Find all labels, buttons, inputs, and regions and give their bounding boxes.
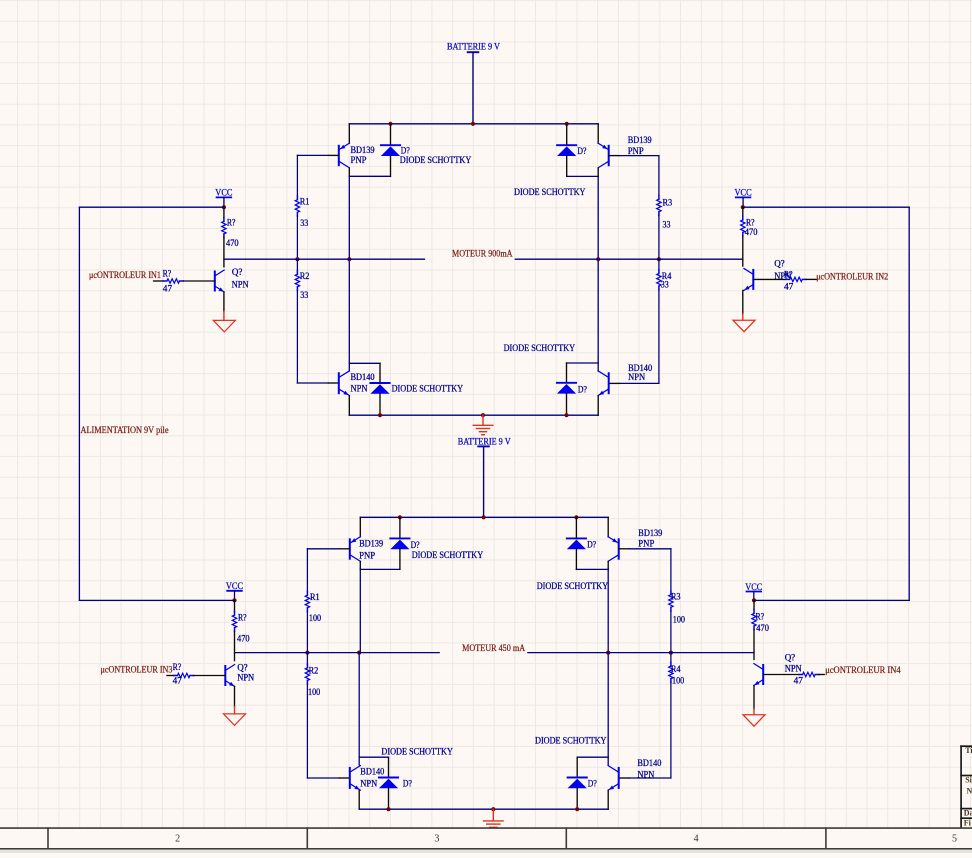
svg-text:3: 3: [434, 834, 439, 845]
pin diode D8 anode: [576, 788, 578, 809]
svg-text:47: 47: [794, 675, 804, 685]
svg-text:BD140: BD140: [637, 758, 661, 768]
node VCC-TL: [222, 205, 226, 209]
svg-text:PNP: PNP: [628, 146, 644, 156]
node battery/top-rail junction: [471, 122, 475, 126]
svg-text:33: 33: [661, 279, 669, 289]
svg-text:NPN: NPN: [237, 672, 254, 682]
power port BATTERIE 9 V (top): [447, 42, 500, 53]
pin diode D6 anode: [575, 549, 577, 569]
power port VCC (top-left): [215, 187, 232, 197]
pin R? top TR: [742, 207, 744, 216]
diode D1 schottky (top-left): [381, 145, 400, 156]
wire VCC stem TR: [742, 197, 744, 207]
svg-text:D?: D?: [587, 540, 596, 550]
svg-text:100: 100: [308, 687, 321, 697]
resistor R? 470 (top-left): [222, 218, 226, 238]
wire VCC stem TL: [223, 197, 225, 207]
svg-text:R?: R?: [163, 269, 172, 279]
wire motor node to R2: [296, 259, 298, 270]
svg-text:BD139: BD139: [628, 135, 652, 145]
transistor Q? NPN driver top-right: [744, 269, 753, 291]
resistor R? 47 (top-right): [786, 277, 806, 281]
wire motor row right a: [659, 258, 743, 260]
svg-text:R?: R?: [784, 270, 793, 280]
svg-text:Q?: Q?: [232, 267, 243, 277]
pin base Q-BD140-BR: [619, 777, 630, 779]
wire VCC-TR to right rail: [743, 206, 909, 208]
pin collector Q-BD139-TR: [597, 168, 599, 176]
pin emitter Q-BD140-BL: [358, 790, 360, 809]
svg-text:DIODE SCHOTTKY: DIODE SCHOTTKY: [400, 155, 472, 165]
pin diode D1 cathode: [390, 124, 392, 145]
pin emitter Q-BL: [234, 687, 236, 707]
wire right rail: [908, 207, 910, 600]
sheet border ruler band: [0, 828, 972, 849]
svg-text:Fi: Fi: [964, 818, 972, 827]
diode D5 schottky (bridge2 top-left): [390, 538, 409, 549]
svg-text:NPN: NPN: [232, 280, 249, 290]
svg-text:BD140: BD140: [360, 767, 384, 777]
svg-text:Q?: Q?: [237, 662, 248, 672]
node battery/bridge2-rail junction: [482, 515, 486, 519]
svg-text:47: 47: [163, 284, 173, 294]
transistor BD140 NPN bridge2-right: [608, 766, 619, 791]
pin collector Q-BD139-BL: [359, 562, 361, 570]
resistor R? 470 (bottom-left): [232, 611, 236, 631]
wire motor node to R4: [658, 259, 660, 270]
node R1b/R2b motor junction: [305, 651, 309, 655]
svg-text:BD139: BD139: [359, 538, 383, 548]
wire right leg to BD140-TR collector: [597, 363, 599, 371]
svg-text:D?: D?: [578, 384, 587, 394]
svg-text:NPN: NPN: [637, 770, 654, 780]
wire R4b vertical bottom: [670, 682, 672, 778]
resistor R? 470 (bottom-right): [752, 610, 756, 630]
pin diode D5 anode: [399, 549, 401, 569]
wire R3b to motor node: [670, 611, 672, 653]
wire left leg bridge2 lower: [358, 653, 360, 758]
pin emitter Q-BD139-BR: [607, 517, 609, 537]
node rail2 / D8: [575, 807, 579, 811]
resistor R? 47 (bottom-right): [799, 672, 819, 676]
wire R4b to base BD140-BR: [629, 777, 671, 779]
pin emitter Q-BD139-TL: [348, 124, 350, 144]
wire R2 to base BD140-TL: [297, 382, 328, 384]
wire R4 to base BD140-TR: [619, 382, 659, 384]
pin base Q-BD139-TR: [609, 155, 620, 157]
wire R1 vertical top: [296, 155, 298, 196]
pin base lead Q-BR a: [763, 674, 799, 676]
svg-text:VCC: VCC: [215, 187, 232, 197]
node bridge2 rail / diode D6: [574, 515, 578, 519]
power port BATTERIE 9 V (middle): [458, 437, 511, 447]
svg-text:470: 470: [237, 634, 250, 644]
svg-text:R?: R?: [756, 612, 765, 622]
pin R? top TL: [223, 207, 225, 218]
ground triangle (bottom-right): [743, 715, 765, 727]
svg-text:33: 33: [300, 218, 308, 228]
power port VCC (bottom-right): [745, 582, 762, 592]
svg-text:μcONTROLEUR IN4: μcONTROLEUR IN4: [825, 665, 901, 675]
svg-text:BATTERIE 9 V: BATTERIE 9 V: [458, 437, 511, 447]
svg-text:R4: R4: [671, 664, 681, 674]
pin base lead Q-BL b: [194, 675, 226, 677]
resistor R3 (33): [657, 196, 661, 216]
resistor R1 (100): [305, 592, 309, 612]
node R1/R2 motor junction: [295, 257, 299, 261]
resistor R2 (33): [295, 271, 299, 291]
svg-text:2: 2: [175, 834, 180, 845]
svg-text:MOTEUR 450 mA: MOTEUR 450 mA: [462, 643, 525, 653]
ground triangle (top-left): [213, 320, 235, 332]
svg-text:DIODE SCHOTTKY: DIODE SCHOTTKY: [514, 187, 586, 197]
node rail2 / ground: [491, 807, 495, 811]
svg-text:VCC: VCC: [226, 581, 243, 591]
wire collector row to diode D7: [359, 756, 388, 758]
diode D6 schottky (bridge2 top-right): [567, 538, 586, 549]
svg-text:R1: R1: [300, 196, 310, 206]
diode D4 schottky (bottom-right bridge1): [557, 383, 576, 394]
pin diode D4 anode: [566, 394, 568, 416]
node motor right leg b2: [606, 651, 610, 655]
wire R2 vertical bottom: [296, 290, 298, 383]
pin base Q-BD139-TL: [328, 154, 339, 156]
svg-text:470: 470: [745, 227, 758, 237]
svg-text:PNP: PNP: [638, 539, 654, 549]
wire battery stem (middle): [483, 446, 485, 517]
pin diode D2 cathode: [566, 124, 568, 145]
wire motor node to R4b: [670, 653, 672, 663]
svg-text:μcONTROLEUR IN3: μcONTROLEUR IN3: [101, 664, 173, 674]
transistor Q? NPN driver top-left: [215, 270, 224, 292]
ground earth symbol (bridge1): [473, 425, 493, 434]
svg-text:100: 100: [673, 614, 686, 624]
diode D2 schottky (top-right): [557, 145, 576, 156]
pin diode D4 cathode: [566, 363, 568, 383]
svg-text:NPN: NPN: [785, 663, 802, 673]
node top-rail / diode D1: [388, 122, 392, 126]
pin base Q-BD140-TR: [609, 382, 620, 384]
svg-text:470: 470: [756, 623, 769, 633]
pin emitter Q-BD140-TL: [348, 396, 350, 416]
node top-rail / diode D2: [565, 122, 569, 126]
svg-text:VCC: VCC: [735, 188, 752, 198]
svg-text:BD139: BD139: [638, 528, 662, 538]
ground stem Q-TL: [223, 312, 225, 321]
pin base Q-BD140-TL: [328, 382, 339, 384]
node rail2 / D7: [386, 807, 390, 811]
svg-text:PNP: PNP: [351, 155, 367, 165]
transistor Q? NPN driver bottom-right: [754, 664, 763, 686]
svg-text:Q?: Q?: [785, 653, 796, 663]
pin base Q-BD140-BL: [339, 777, 350, 779]
node R3b/R4b motor junction: [669, 651, 673, 655]
wire R3 vertical top: [658, 156, 660, 196]
resistor R4 (100): [669, 662, 673, 682]
node VCC-TR: [741, 205, 745, 209]
transistor BD139 PNP top-right: [598, 143, 609, 168]
pin R? bottom BL: [234, 631, 236, 660]
resistor R? 47 (top-left): [163, 279, 183, 283]
svg-text:Da: Da: [964, 809, 972, 818]
pin collector Q-BD139-BR: [607, 562, 609, 570]
pin diode D6 cathode: [575, 517, 577, 538]
node motor right leg: [596, 257, 600, 261]
svg-text:μcONTROLEUR IN1: μcONTROLEUR IN1: [89, 270, 161, 280]
wire motor row right stub: [515, 258, 598, 260]
wire motor row b2 left stub: [359, 652, 439, 654]
wire left leg bridge1: [348, 176, 350, 363]
wire base BD139-BL to R1b: [307, 548, 339, 550]
wire motor row b2 right stub: [528, 652, 608, 654]
pin collector Q-BD139-TL: [348, 168, 350, 176]
svg-text:DIODE SCHOTTKY: DIODE SCHOTTKY: [537, 581, 609, 591]
wire base BD139-BR to R3b: [629, 548, 671, 550]
wire collector row to diode D4: [567, 362, 599, 364]
wire R3 to motor node: [658, 215, 660, 259]
pin diode D3 anode: [379, 394, 381, 415]
svg-text:DIODE SCHOTTKY: DIODE SCHOTTKY: [504, 343, 576, 353]
wire motor row left stub: [349, 258, 424, 260]
svg-text:BD140: BD140: [351, 372, 375, 382]
node bottom rail / D4: [564, 413, 568, 417]
wire leg to BD140-BR collector: [607, 757, 609, 765]
pin base lead Q-TL b: [183, 280, 215, 282]
svg-text:BD139: BD139: [351, 145, 375, 155]
node VCC-BR: [752, 598, 756, 602]
svg-text:PNP: PNP: [359, 550, 375, 560]
wire R2b to base BD140-BL: [307, 777, 339, 779]
svg-text:NPN: NPN: [628, 372, 645, 382]
resistor R3 (100): [669, 591, 673, 611]
node bottom rail / ground: [481, 413, 485, 417]
svg-text:DIODE SCHOTTKY: DIODE SCHOTTKY: [412, 550, 484, 560]
svg-text:μcONTROLEUR IN2: μcONTROLEUR IN2: [816, 271, 888, 281]
pin R? bottom TL: [223, 238, 225, 267]
pin base lead Q-TR b: [806, 278, 816, 280]
ground stem (bridge2): [492, 809, 494, 820]
wire leg to BD140-BL collector: [358, 757, 360, 765]
svg-text:DIODE SCHOTTKY: DIODE SCHOTTKY: [381, 747, 453, 757]
node bottom rail / D3: [378, 413, 382, 417]
pin emitter Q-BD139-TR: [597, 124, 599, 144]
wire motor row b2 left a: [235, 652, 308, 654]
wire collector to diode D1 anode: [349, 175, 390, 177]
pin base lead Q-BL a: [167, 675, 174, 677]
pin diode D7 cathode: [388, 757, 390, 777]
svg-text:DIODE SCHOTTKY: DIODE SCHOTTKY: [535, 736, 607, 746]
svg-text:R1: R1: [310, 592, 320, 602]
svg-text:D?: D?: [403, 778, 412, 788]
transistor BD140 NPN bridge2-left: [350, 766, 361, 791]
node motor left leg: [347, 257, 351, 261]
pin emitter Q-BD140-TR: [597, 396, 599, 416]
svg-text:R?: R?: [238, 613, 247, 623]
wire bottom rail bridge2: [359, 808, 608, 810]
diode D3 schottky (bottom-left bridge1): [370, 383, 389, 394]
pin base lead Q-TR a: [753, 278, 786, 280]
svg-text:R?: R?: [746, 218, 755, 228]
wire motor row left a: [224, 258, 297, 260]
wire right leg bridge2: [607, 569, 609, 652]
pin emitter Q-TL: [223, 292, 225, 312]
node VCC-BL: [232, 598, 236, 602]
title block border: [961, 746, 972, 828]
wire motor row left b: [297, 258, 349, 260]
pin diode D3 cathode: [379, 363, 381, 383]
svg-text:47: 47: [173, 676, 183, 686]
pin R? bottom BR: [753, 630, 755, 660]
pin base lead Q-BR b: [819, 674, 824, 676]
svg-text:33: 33: [663, 220, 671, 230]
pin diode D5 cathode: [399, 517, 401, 538]
wire motor node to R2b: [306, 653, 308, 665]
resistor R? 470 (top-right): [741, 216, 745, 236]
wire top rail bridge2: [360, 516, 608, 518]
svg-text:ALIMENTATION 9V pile: ALIMENTATION 9V pile: [81, 425, 169, 435]
ground triangle (bottom-left): [224, 714, 246, 726]
wire right leg bridge1: [597, 176, 599, 363]
wire motor row b2 right b: [608, 652, 671, 654]
pin R? top BR: [753, 600, 755, 609]
svg-text:100: 100: [672, 676, 685, 686]
pin diode D1 anode: [390, 156, 392, 176]
pin emitter Q-BD140-BR: [607, 790, 609, 809]
pin diode D7 anode: [388, 788, 390, 809]
svg-text:NPN: NPN: [360, 778, 377, 788]
transistor BD139 PNP bottom-left: [350, 537, 361, 562]
diode D8 schottky (bridge2 bottom-right): [568, 778, 587, 789]
power port VCC (bottom-left): [226, 581, 243, 591]
wire motor row b2 left b: [307, 652, 359, 654]
svg-text:R2: R2: [300, 271, 310, 281]
svg-text:MOTEUR 900mA: MOTEUR 900mA: [452, 249, 513, 259]
wire R3b vertical top: [670, 549, 672, 591]
resistor R1 (33): [295, 196, 299, 216]
svg-text:5: 5: [952, 834, 957, 845]
pin base Q-BD139-BR: [619, 548, 630, 550]
transistor BD140 NPN top-left: [339, 371, 350, 396]
svg-text:VCC: VCC: [745, 582, 762, 592]
ground stem Q-TR: [742, 314, 744, 320]
wire left leg to BD140-TL collector: [348, 363, 350, 371]
wire collector row to diode D3: [349, 362, 380, 364]
svg-text:R3: R3: [671, 591, 681, 601]
resistor R4 (33): [657, 270, 661, 290]
wire bottom rail bridge1: [349, 414, 598, 416]
svg-text:Q?: Q?: [774, 259, 785, 269]
wire collector to diode D5 anode: [360, 568, 400, 570]
pin base Q-BD139-BL: [339, 548, 350, 550]
wire motor row b2 right a: [671, 652, 754, 654]
transistor Q? NPN driver bottom-left: [225, 665, 234, 687]
transistor BD139 PNP bottom-right: [608, 537, 619, 562]
wire left leg bridge2: [359, 569, 361, 652]
wire left rail to VCC-BL: [79, 599, 234, 601]
node bridge2 rail / diode D5: [398, 515, 402, 519]
svg-text:R?: R?: [173, 662, 182, 672]
svg-text:100: 100: [309, 613, 322, 623]
diode D7 schottky (bridge2 bottom-left): [379, 778, 398, 789]
pin emitter Q-BD139-BL: [359, 517, 361, 537]
svg-text:BATTERIE 9 V: BATTERIE 9 V: [447, 42, 500, 52]
svg-text:Ti: Ti: [965, 746, 972, 755]
ground triangle (top-right): [733, 320, 755, 332]
svg-text:Si: Si: [965, 775, 972, 784]
window bottom strip: [0, 850, 972, 853]
wire VCC stem BR: [753, 592, 755, 601]
wire VCC-BR to right rail: [754, 599, 909, 601]
svg-text:R3: R3: [663, 198, 673, 208]
wire R4 vertical bottom: [658, 290, 660, 384]
wire VCC-TL to left rail: [79, 206, 224, 208]
pin base lead Q-TL a: [154, 280, 164, 282]
svg-text:NPN: NPN: [351, 384, 368, 394]
svg-text:N: N: [967, 786, 972, 795]
wire top rail bridge1: [349, 123, 598, 125]
svg-text:D?: D?: [411, 540, 420, 550]
wire VCC stem BL: [234, 591, 236, 601]
wire R1 to motor node: [296, 216, 298, 259]
svg-text:R?: R?: [227, 217, 236, 227]
pin R? bottom TR: [742, 236, 744, 266]
svg-text:470: 470: [226, 238, 239, 248]
ground stem Q-BL: [234, 707, 236, 714]
pin diode D8 cathode: [576, 757, 578, 777]
wire collector row to diode D8: [577, 756, 608, 758]
wire battery stem (top): [472, 52, 474, 124]
wire left rail (ALIMENTATION): [78, 207, 80, 600]
wire collector to diode D2 anode: [567, 175, 599, 177]
transistor BD139 PNP top-left: [339, 143, 350, 168]
svg-text:33: 33: [300, 290, 308, 300]
wire right leg bridge2 lower: [607, 653, 609, 758]
wire motor row right b: [598, 258, 659, 260]
pin diode D2 anode: [566, 156, 568, 177]
resistor R? 47 (bottom-left): [174, 673, 194, 677]
wire base BD139-TL to R1: [297, 154, 328, 156]
pin emitter Q-TR: [742, 290, 744, 314]
pin emitter Q-BR: [753, 686, 755, 709]
wire base BD139-TR to R3: [619, 155, 659, 157]
resistor R2 (100): [305, 664, 309, 684]
node motor left leg b2: [357, 651, 361, 655]
power port VCC (top-right): [735, 188, 752, 198]
svg-text:47: 47: [784, 281, 794, 291]
pin R? top BL: [234, 600, 236, 611]
wire collector to diode D6 anode: [576, 568, 608, 570]
wire R1b vertical top: [306, 549, 308, 592]
wire R2b vertical bottom: [306, 684, 308, 778]
wire R1b to motor node: [306, 611, 308, 652]
svg-text:DIODE SCHOTTKY: DIODE SCHOTTKY: [392, 384, 464, 394]
svg-text:D?: D?: [588, 778, 597, 788]
svg-text:R2: R2: [309, 665, 319, 675]
node R3/R4 motor junction: [657, 257, 661, 261]
svg-text:D?: D?: [577, 146, 586, 156]
ground stem Q-BR: [753, 709, 755, 715]
svg-text:4: 4: [694, 834, 699, 845]
ground stem (bridge1): [482, 415, 484, 425]
ground earth symbol (bridge2): [484, 821, 504, 830]
transistor BD140 NPN top-right: [598, 371, 609, 396]
